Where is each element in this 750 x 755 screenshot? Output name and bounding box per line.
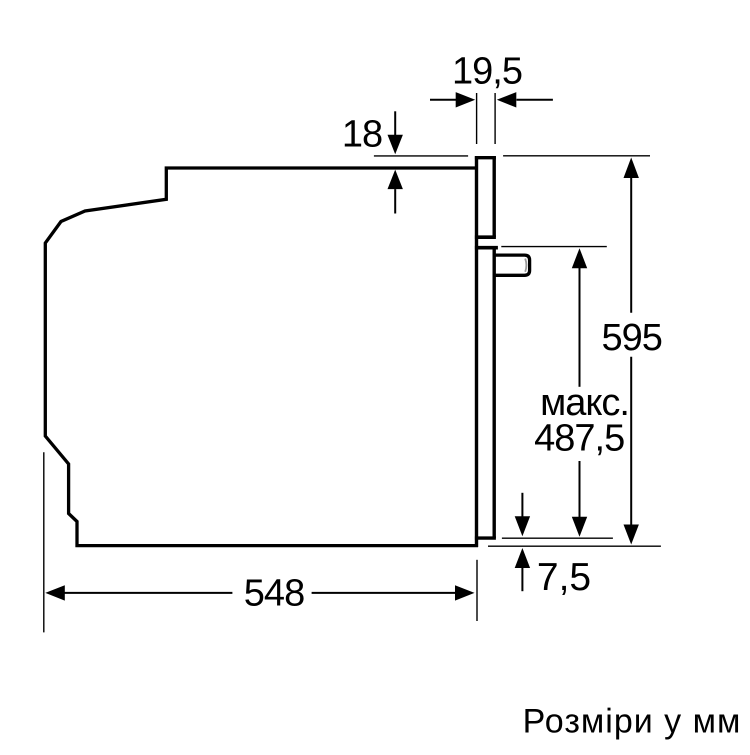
handle shading arc bbox=[525, 259, 526, 272]
dimension 18 up arrow bbox=[388, 170, 403, 214]
dimension 595 up arrow bbox=[624, 158, 639, 313]
front panel left wall bbox=[475, 156, 478, 547]
svg-text:548: 548 bbox=[244, 573, 304, 615]
dimension 19.5 left arrow bbox=[430, 92, 475, 107]
dimension 18 down arrow bbox=[388, 111, 403, 154]
extension line 487.5 top bbox=[501, 246, 607, 248]
front panel slot bar 1 bbox=[475, 235, 496, 239]
extension line 548 left bbox=[43, 452, 45, 632]
dimension 487.5 down arrow bbox=[572, 461, 587, 537]
dimension 595 down arrow bbox=[624, 357, 639, 545]
extension line panel bottom bbox=[502, 537, 613, 539]
svg-text:487,5: 487,5 bbox=[534, 417, 624, 459]
extension line 18 top bbox=[374, 155, 468, 157]
front panel right wall lower bbox=[493, 248, 496, 538]
door handle bbox=[494, 255, 530, 275]
svg-text:18: 18 bbox=[342, 114, 382, 156]
oven body outline bbox=[45, 168, 478, 546]
dimension 487.5 up arrow bbox=[572, 248, 587, 387]
extension line 19.5 right bbox=[494, 93, 496, 144]
extension line 595 top bbox=[503, 155, 650, 157]
extension line body bottom bbox=[488, 545, 661, 547]
front panel top cap bbox=[475, 156, 496, 159]
dimension 7.5 down arrow bbox=[515, 493, 530, 536]
dimension 7.5 up arrow bbox=[515, 548, 530, 591]
front panel slot bar 2 bbox=[475, 246, 498, 250]
front panel right wall upper bbox=[493, 156, 496, 237]
extension line 548 right bbox=[476, 560, 478, 621]
svg-text:7,5: 7,5 bbox=[537, 556, 591, 599]
svg-text:Розміри у мм: Розміри у мм bbox=[523, 703, 742, 741]
dimension 548 right arrow bbox=[312, 585, 475, 600]
front panel bottom cap bbox=[475, 536, 496, 539]
svg-text:595: 595 bbox=[601, 317, 661, 359]
extension line 19.5 left bbox=[476, 93, 478, 144]
dimension 548 left arrow bbox=[45, 585, 232, 600]
dimension 19.5 right arrow bbox=[497, 92, 553, 107]
svg-text:19,5: 19,5 bbox=[452, 51, 522, 93]
